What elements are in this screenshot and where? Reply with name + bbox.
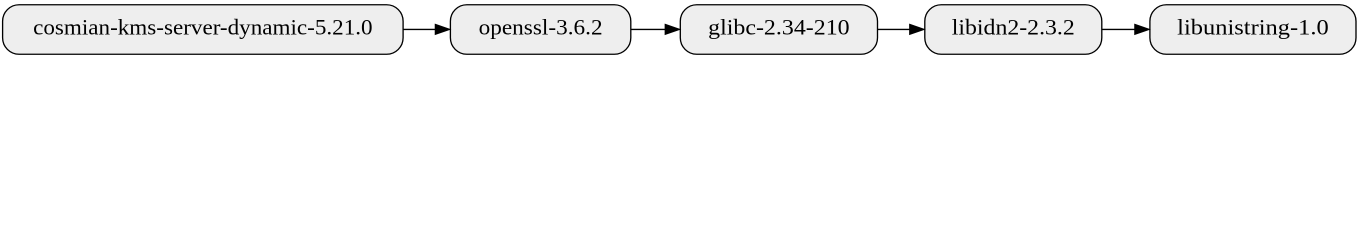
node libidn2-2.3.2 <box>925 5 1102 55</box>
arrowhead openssl-3.6.2 -> glibc-2.34-210 <box>665 25 679 35</box>
svg-text:glibc-2.34-210: glibc-2.34-210 <box>708 15 850 40</box>
wire openssl-3.6.2 -> glibc-2.34-210 <box>631 28 667 30</box>
svg-text:openssl-3.6.2: openssl-3.6.2 <box>479 15 603 40</box>
edge glibc-2.34-210 -> libidn2-2.3.2 <box>878 25 924 35</box>
edge cosmian-kms-server-dynamic-5.21.0 -> openssl-3.6.2 <box>403 25 449 35</box>
arrowhead glibc-2.34-210 -> libidn2-2.3.2 <box>910 25 924 35</box>
arrowhead libidn2-2.3.2 -> libunistring-1.0 <box>1135 25 1149 35</box>
wire libidn2-2.3.2 -> libunistring-1.0 <box>1102 28 1136 30</box>
node glibc-2.34-210 <box>680 5 877 55</box>
wire glibc-2.34-210 -> libidn2-2.3.2 <box>878 28 911 30</box>
wire cosmian-kms-server-dynamic-5.21.0 -> openssl-3.6.2 <box>403 28 436 30</box>
svg-text:libidn2-2.3.2: libidn2-2.3.2 <box>952 15 1075 40</box>
node openssl-3.6.2 <box>450 5 630 55</box>
node cosmian-kms-server-dynamic-5.21.0 <box>3 5 404 55</box>
svg-text:libunistring-1.0: libunistring-1.0 <box>1177 15 1329 40</box>
svg-text:cosmian-kms-server-dynamic-5.2: cosmian-kms-server-dynamic-5.21.0 <box>33 15 373 40</box>
edge openssl-3.6.2 -> glibc-2.34-210 <box>631 25 680 35</box>
node libunistring-1.0 <box>1150 5 1356 55</box>
edge libidn2-2.3.2 -> libunistring-1.0 <box>1102 25 1149 35</box>
arrowhead cosmian-kms-server-dynamic-5.21.0 -> openssl-3.6.2 <box>435 25 449 35</box>
